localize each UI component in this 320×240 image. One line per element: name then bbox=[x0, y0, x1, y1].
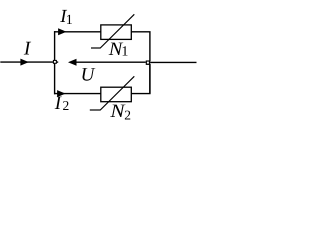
wire: main input, y=62 bbox=[0, 61, 53, 63]
wire: left vertical bus, x=54.6 bbox=[54, 31, 56, 94]
resistor N2: varistor foot bbox=[90, 109, 101, 111]
svg-text:2: 2 bbox=[63, 98, 70, 113]
svg-text:1: 1 bbox=[66, 13, 73, 28]
node: left terminal square bbox=[53, 60, 57, 64]
node: right terminal square bbox=[146, 60, 151, 64]
wire: output to the right edge bbox=[150, 61, 196, 63]
wire: right vertical lower, x=149.5 bbox=[149, 64, 151, 94]
wire: top branch right segment bbox=[131, 32, 150, 61]
wire: voltage U reference line bbox=[71, 61, 146, 63]
resistor N1: varistor foot bbox=[91, 47, 101, 49]
arrowhead: current I1 on top branch bbox=[58, 28, 66, 35]
svg-text:2: 2 bbox=[124, 108, 131, 123]
wire: top branch horizontal left segment, y=31.8 bbox=[54, 31, 101, 33]
resistor N2: varistor diagonal bbox=[100, 76, 134, 110]
svg-text:U: U bbox=[81, 64, 96, 85]
wire: bottom branch horizontal left segment, y=93.5 bbox=[54, 93, 101, 95]
svg-text:1: 1 bbox=[121, 45, 128, 60]
arrowhead: current I2 on bottom branch bbox=[57, 90, 65, 97]
arrowhead: voltage U pointing left bbox=[68, 59, 77, 66]
resistor N2: box bbox=[101, 87, 132, 102]
wire: nub right of left node bbox=[57, 61, 58, 63]
wire: bottom branch right segment bbox=[131, 64, 150, 93]
arrowhead: current I on input wire bbox=[20, 59, 28, 66]
resistor N1: varistor diagonal bbox=[100, 14, 134, 48]
resistor N1: box bbox=[101, 25, 132, 40]
